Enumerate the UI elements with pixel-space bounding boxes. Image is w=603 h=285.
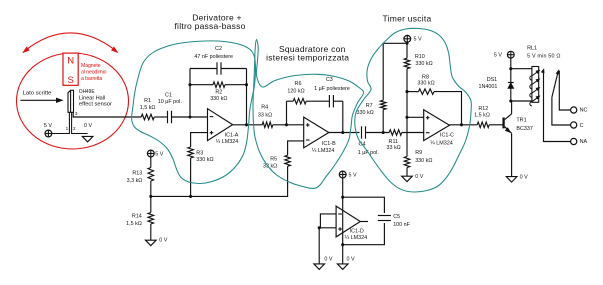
node C4 R7 R11 junction [382,131,385,134]
op-amp IC1-B [304,117,329,148]
wire node B to relay coil [511,100,532,102]
svg-text:0 V: 0 V [159,238,167,244]
wire to IC1-C non-inverting input [407,116,424,118]
wire IC1-B output row [329,132,360,134]
svg-text:0 V: 0 V [520,175,528,181]
resistor R13 [148,168,154,182]
svg-text:isteresi temporizzata: isteresi temporizzata [266,52,349,62]
svg-text:5 V min 50 Ω: 5 V min 50 Ω [527,54,560,60]
svg-text:R14: R14 [132,214,142,220]
svg-text:R2: R2 [215,89,222,95]
svg-text:S: S [68,75,74,86]
wire feedback left vertical [189,69,191,118]
wire to C5 top [343,197,385,213]
wire R6 to C3 [306,100,329,102]
svg-text:5 V: 5 V [414,37,422,43]
hand-drawn enclosure derivatore stage (teal) [132,41,256,184]
wire 5V to R10 [406,42,408,58]
svg-text:C3: C3 [326,77,333,83]
node feedback left R2 [188,83,191,86]
wire IC1-C output to R12 [450,124,478,126]
wire C4 to IC1-C inverting input [366,132,390,134]
svg-text:R3: R3 [196,150,203,156]
svg-text:Timer uscita: Timer uscita [383,14,432,24]
svg-text:N: N [67,56,74,67]
wire R8 to output [434,92,462,125]
wire R1 to C1 [154,116,167,118]
svg-text:TR1: TR1 [516,117,526,123]
wire R3 to reference rail [190,158,192,196]
node IC1-A output [245,123,248,126]
relay NA fixed contact wire [544,72,571,142]
svg-text:330 kΩ: 330 kΩ [356,110,373,116]
svg-text:0 V: 0 V [415,174,423,180]
5V supply at divider [147,150,154,157]
wire 5V to R13 [150,157,152,168]
transistor TR1 BC337 [502,118,504,129]
svg-text:R5: R5 [270,156,277,162]
sensor pin 3 output wire to R1 [73,112,141,117]
wire C3 to output [333,100,342,102]
svg-text:33 kΩ: 33 kΩ [258,112,272,118]
relay NC fixed contact wire [559,71,570,111]
wire R14 to ground [150,224,152,240]
wire IC1-D power to ground [342,245,344,264]
node IC1-D inputs junction [318,226,321,229]
svg-text:5 V: 5 V [494,53,502,59]
wire TR1 emitter to ground [511,133,513,176]
svg-text:Magnete: Magnete [81,63,101,69]
svg-text:33 kΩ: 33 kΩ [386,145,400,151]
wire IC1-A output row [233,124,263,126]
ground at TR1 0V [506,177,517,183]
svg-text:¼ LM324: ¼ LM324 [430,140,452,146]
svg-text:1 µF poliestere: 1 µF poliestere [314,86,350,92]
svg-text:5 V: 5 V [349,173,357,179]
rotation direction arc arrow (red) [25,33,117,51]
node R4 feedback junction [285,123,288,126]
svg-text:10 µF pol.: 10 µF pol. [158,99,182,105]
svg-text:R6: R6 [295,81,302,87]
wire IC1-B inverting input to R5 [288,141,304,155]
node IC1-C output [460,123,463,126]
svg-text:1N4001: 1N4001 [479,84,498,90]
svg-text:IC1-D: IC1-D [350,228,364,234]
svg-text:5 V: 5 V [44,123,52,129]
svg-text:R7: R7 [366,103,373,109]
svg-text:IC1-C: IC1-C [440,132,454,138]
rotating magnet circle (red) [17,53,129,149]
svg-text:330 kΩ: 330 kΩ [415,158,432,164]
svg-text:100 nF: 100 nF [393,222,410,228]
capacitor C1 [167,111,169,123]
svg-text:C5: C5 [393,214,400,220]
svg-text:¼ LM324: ¼ LM324 [216,139,238,145]
hall sensor U1 package [68,90,74,112]
op-amp IC1-D [336,206,360,237]
op-amp IC1-C [424,110,450,141]
wire IC1-D inputs to ground [318,228,320,264]
relay RL1 coil [532,67,539,103]
resistor R11 [389,130,402,136]
svg-text:OH49E: OH49E [79,89,95,95]
resistor R7 [382,110,384,133]
svg-text:R10: R10 [415,54,425,60]
ground at IC1-D 0V right [337,264,348,270]
wire R9 to ground [406,168,408,177]
node C5 bottom junction [341,243,344,246]
sensor pin 1 wire [52,112,69,133]
resistor R12 [477,122,489,128]
capacitor C5 [378,215,391,217]
svg-text:0 V: 0 V [347,257,355,263]
svg-text:2: 2 [73,126,76,131]
svg-text:0 V: 0 V [324,257,332,263]
diode DS1 1N4001 [510,69,512,101]
svg-text:5 V: 5 V [155,151,163,157]
resistor R4 [262,122,273,128]
svg-text:C1: C1 [165,92,172,98]
node at C1 output [188,115,191,118]
svg-text:NC: NC [580,108,588,114]
svg-text:filtro passa-basso: filtro passa-basso [174,21,245,31]
relay common wire [552,97,571,125]
wire R4 to IC1-B non-inverting input [273,124,304,126]
op-amp IC1-A [208,109,233,141]
wire C5 bottom [343,223,385,245]
node IC1-B output [341,131,344,134]
svg-text:a barretta: a barretta [81,76,102,82]
wire R10 down through non-inverting node [406,69,408,157]
ground at R9 0V [402,176,413,182]
svg-text:DS1: DS1 [487,77,498,83]
svg-text:R9: R9 [415,150,422,156]
wire 5V to node A [510,58,512,69]
capacitor C4 [361,126,363,138]
node R3 on reference rail [189,195,192,198]
svg-text:1,5 kΩ: 1,5 kΩ [140,105,156,111]
svg-text:330 kΩ: 330 kΩ [417,81,434,87]
svg-text:¼ LM324: ¼ LM324 [345,235,367,241]
node feedback right R2 [245,83,248,86]
svg-text:1: 1 [66,126,69,131]
resistor R14 [148,213,154,225]
capacitor C3 [328,95,330,107]
svg-text:3: 3 [75,111,78,116]
node A diode relay top [509,67,512,70]
node B diode relay bottom [509,99,512,102]
wire 5V to IC1-D power pin [342,178,344,245]
terminal NA [571,138,577,144]
5V supply at IC1-D [339,171,346,178]
relay movable blade [552,71,558,97]
terminal NC [571,107,577,113]
svg-text:C: C [580,123,584,129]
terminal C [571,122,577,128]
wire positive feedback vertical [286,101,288,125]
svg-text:RL1: RL1 [527,46,537,52]
wire R13 to node [150,181,152,213]
resistor R8 [407,91,419,93]
resistor R5 [285,155,291,166]
svg-text:R12: R12 [478,106,488,112]
wire TR1 collector [511,101,513,114]
resistor R1 [141,114,154,120]
resistor R6 [287,100,294,102]
svg-text:al neodimio: al neodimio [81,70,107,76]
magnet bar outline [63,53,78,85]
wire C1 to IC1-A inverting input [172,116,208,118]
svg-text:BC337: BC337 [516,126,532,132]
wire IC1-D inverting input loop [320,214,336,228]
wire IC1-D non-inverting input [319,227,336,229]
wire node A to relay coil [511,68,532,70]
resistor R2 [190,84,213,86]
svg-text:3,3 kΩ: 3,3 kΩ [127,178,143,184]
svg-text:NA: NA [580,139,588,145]
node C5 top junction [341,196,344,199]
svg-text:Lato scritte: Lato scritte [23,91,53,97]
sensor pin 2 wire [72,112,88,133]
hand-drawn enclosure timer stage (teal) [355,28,472,192]
svg-text:R1: R1 [144,98,151,104]
svg-text:R8: R8 [422,74,429,80]
svg-text:¼ LM324: ¼ LM324 [312,148,334,154]
resistor R3 [188,147,194,158]
svg-text:Linear Hall: Linear Hall [79,95,105,101]
5V supply at sensor [45,130,52,137]
svg-text:R4: R4 [261,105,268,111]
arrow pointing to sensor face [20,99,57,101]
svg-text:IC1-A: IC1-A [225,132,239,138]
svg-text:C2: C2 [215,46,222,52]
5V supply at relay [507,51,514,58]
ground at divider 0V [146,240,157,246]
svg-text:47 nF poliestere: 47 nF poliestere [194,54,233,60]
wire IC1-D output stub [360,221,368,223]
reference rail wire [151,195,288,197]
node reference divider [149,195,152,198]
wire feedback right vertical [246,69,248,125]
svg-text:0 V: 0 V [84,123,92,129]
ground at IC1-D 0V left [314,264,325,270]
wire R5 to reference rail [287,166,289,196]
resistor R10 [404,58,410,68]
svg-text:R13: R13 [132,171,142,177]
svg-text:330 kΩ: 330 kΩ [415,61,432,67]
wire IC1-A non-inverting input to R3 [191,133,208,147]
svg-text:IC1-B: IC1-B [322,141,336,147]
ground at sensor 0V [82,136,93,142]
svg-text:effect sensor: effect sensor [79,102,112,108]
node R10 R8 junction [405,90,408,93]
5V supply at timer [404,35,411,42]
hand-drawn enclosure squadratore stage (teal) [253,40,364,189]
resistor R9 [404,157,410,168]
wire R7 to 5V rail [383,43,407,100]
svg-text:330 kΩ: 330 kΩ [196,157,213,163]
svg-text:1,5 kΩ: 1,5 kΩ [126,221,142,227]
capacitor C2 [190,68,217,70]
svg-text:1,5 kΩ: 1,5 kΩ [474,112,490,118]
wire R12 to TR1 base [489,124,503,126]
node non-inverting input junction [405,116,408,119]
wire R11 to IC1-C inverting input [402,132,424,134]
node 5V timer junction [406,42,409,45]
svg-text:120 kΩ: 120 kΩ [287,88,304,94]
svg-text:330 kΩ: 330 kΩ [210,96,227,102]
